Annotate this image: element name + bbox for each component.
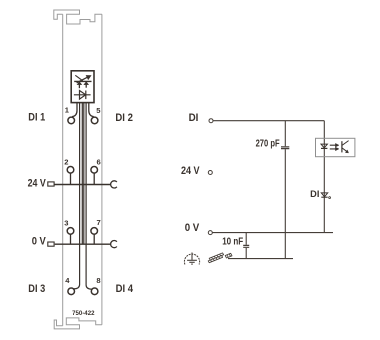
svg-text:24 V: 24 V xyxy=(181,165,200,177)
svg-text:0 V: 0 V xyxy=(185,222,200,234)
module left edge xyxy=(62,14,64,326)
wire 270pF branch upper xyxy=(284,121,286,147)
svg-text:DI 4: DI 4 xyxy=(116,283,134,295)
24V spring contact arc (right) xyxy=(111,181,117,188)
wire bundle from box to 0V rail (inner pins) xyxy=(79,103,81,245)
optocoupler U2 xyxy=(316,138,355,156)
0V spring contact arc (right) xyxy=(111,241,117,248)
svg-text:DI: DI xyxy=(310,189,319,199)
cable shield symbol xyxy=(208,253,232,263)
svg-text:6: 6 xyxy=(97,157,101,166)
terminal 3 xyxy=(67,228,74,235)
module right edge xyxy=(101,14,103,325)
24V blade contact (left) xyxy=(48,182,54,186)
svg-text:1: 1 xyxy=(65,106,70,115)
light arrows xyxy=(330,145,336,149)
wire from box pin to terminal 1 xyxy=(72,103,77,117)
0V blade contact (left) xyxy=(48,242,54,246)
terminal 2 xyxy=(67,167,74,174)
svg-text:24 V: 24 V xyxy=(28,178,47,190)
wire from box down to terminal 4 xyxy=(85,103,87,245)
svg-text:10 nF: 10 nF xyxy=(222,236,243,247)
wire from box pin to terminal 5 xyxy=(89,103,94,117)
svg-text:2: 2 xyxy=(64,157,68,166)
terminal 8 xyxy=(91,288,98,295)
wire from bundle down to terminal 8 xyxy=(86,244,92,289)
wire 10nF branch upper xyxy=(245,233,247,245)
terminal 1 xyxy=(68,117,75,124)
wire DI horizontal xyxy=(213,120,324,122)
svg-text:DI 3: DI 3 xyxy=(28,283,45,295)
labels left module xyxy=(28,112,134,317)
functional earth symbol xyxy=(184,253,199,265)
terminal 5 xyxy=(91,117,98,124)
0V terminal circle xyxy=(208,231,212,235)
terminal 7 xyxy=(91,228,98,235)
svg-text:5: 5 xyxy=(96,106,101,115)
0V power rail across module xyxy=(55,243,111,245)
status LED "DI" on the line xyxy=(321,193,330,199)
stem terminal 7 to 0V rail xyxy=(93,235,95,245)
module 750-422 body outline xyxy=(54,10,102,329)
wire 0V horizontal xyxy=(213,232,334,234)
wire 270pF branch lower xyxy=(284,149,286,258)
svg-text:8: 8 xyxy=(96,276,100,285)
svg-text:0 V: 0 V xyxy=(32,236,47,248)
svg-text:DI 1: DI 1 xyxy=(28,112,45,124)
terminal 6 xyxy=(91,167,98,174)
right-hand equivalent circuit xyxy=(208,119,333,259)
svg-text:7: 7 xyxy=(97,218,101,227)
stem terminal 2 to 24V rail xyxy=(70,173,72,184)
svg-text:3: 3 xyxy=(64,218,68,227)
capacitor C1 270 pF plates xyxy=(281,147,289,149)
phototransistor xyxy=(341,141,343,152)
24V terminal circle (unconnected) xyxy=(208,171,212,175)
wire 10nF branch lower xyxy=(245,248,247,259)
stem terminal 6 to 24V rail xyxy=(93,173,95,184)
module bottom profile xyxy=(54,318,102,329)
terminal 4 xyxy=(68,288,75,295)
capacitor C2 10 nF plates xyxy=(243,245,249,247)
svg-text:750-422: 750-422 xyxy=(72,310,95,317)
wire shield bottom line xyxy=(228,258,293,260)
svg-text:4: 4 xyxy=(65,276,70,285)
svg-text:DI: DI xyxy=(189,112,199,124)
labels right circuit xyxy=(181,112,200,234)
LED indicator symbol inside box (two diodes + light arrow) xyxy=(74,75,91,88)
stem terminal 3 to 0V rail xyxy=(70,235,72,245)
electronics box U1 on module xyxy=(71,71,94,103)
DI input terminal circle xyxy=(209,119,213,123)
svg-text:270 pF: 270 pF xyxy=(256,138,280,149)
24V power rail across module xyxy=(54,184,111,186)
svg-text:DI 2: DI 2 xyxy=(115,112,132,124)
module top profile xyxy=(54,10,102,24)
diode D1 inside box xyxy=(74,91,91,100)
optocoupler LED xyxy=(321,144,327,148)
wire DI vertical through optocoupler xyxy=(323,121,325,233)
